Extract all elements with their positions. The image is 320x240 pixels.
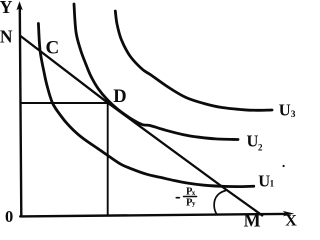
svg-text:0: 0 (5, 207, 13, 226)
svg-text:1: 1 (270, 179, 275, 189)
svg-text:2: 2 (258, 143, 263, 153)
svg-text:C: C (46, 38, 60, 59)
svg-text:D: D (113, 87, 126, 107)
svg-text:3: 3 (291, 110, 296, 120)
svg-text:X: X (285, 212, 297, 227)
svg-text:U: U (279, 101, 291, 120)
svg-text:U: U (258, 171, 270, 190)
svg-text:M: M (244, 210, 261, 227)
svg-text:N: N (0, 27, 13, 47)
svg-text:y: y (192, 200, 196, 208)
svg-text:Y: Y (0, 0, 13, 17)
svg-text:U: U (247, 132, 259, 151)
svg-text:x: x (192, 189, 196, 197)
